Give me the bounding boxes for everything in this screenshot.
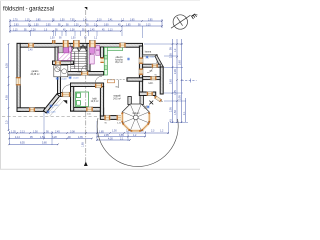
bathroom fixture 2 xyxy=(69,47,72,52)
svg-text:4,14: 4,14 xyxy=(15,136,20,139)
svg-text:-0,02: -0,02 xyxy=(54,105,60,107)
door extension bottom xyxy=(147,92,153,96)
svg-text:±0,00: ±0,00 xyxy=(61,78,67,80)
svg-text:1,85: 1,85 xyxy=(82,142,85,147)
snowflake hall 1 xyxy=(56,77,59,80)
wall below right extension (bottom band) xyxy=(139,92,155,96)
door hall wall xyxy=(95,83,102,88)
right extension chamfer top xyxy=(155,55,163,69)
right side dashed reference line xyxy=(182,80,197,82)
bottom scan edge xyxy=(0,169,200,170)
north symbol circle xyxy=(171,15,191,29)
snowflake porch 1 xyxy=(49,104,52,107)
right dim end ticks xyxy=(170,122,188,124)
svg-text:2,28: 2,28 xyxy=(174,69,177,74)
svg-text:garázs: garázs xyxy=(32,70,40,73)
opening width leader xyxy=(118,80,120,88)
octagon window SW xyxy=(122,123,130,131)
washer circle right xyxy=(62,69,67,74)
svg-text:1,50: 1,50 xyxy=(40,136,45,139)
top dim right end extension xyxy=(161,19,163,28)
north symbol long diagonal xyxy=(171,15,191,28)
svg-text:2,93: 2,93 xyxy=(14,25,19,27)
room labels xyxy=(30,51,153,116)
top dim line row 1 xyxy=(10,20,162,22)
interior wall right of stairs xyxy=(87,44,90,72)
terrace arc xyxy=(97,118,178,166)
svg-text:télikert: télikert xyxy=(133,112,140,115)
WINDOWS (orange) xyxy=(16,40,162,120)
svg-text:3,65: 3,65 xyxy=(130,20,135,22)
svg-text:2,28: 2,28 xyxy=(31,30,36,32)
door wall B xyxy=(55,61,61,65)
octagon window S xyxy=(131,130,142,132)
right extension divider 2 xyxy=(143,77,161,80)
section line (dash-dot) xyxy=(85,10,87,162)
interior wall left of bathroom (vertical) xyxy=(55,47,58,65)
bottom dim line row 2 right xyxy=(97,136,145,138)
bathroom shower fixture gray xyxy=(59,46,63,53)
door right wall upper xyxy=(139,58,143,64)
snowflake dining xyxy=(127,58,130,61)
small blue level labels xyxy=(51,57,156,114)
right extension right wall xyxy=(160,67,163,94)
section marker top xyxy=(84,7,87,10)
svg-text:2,95: 2,95 xyxy=(148,20,153,22)
svg-text:1,13: 1,13 xyxy=(108,30,113,32)
door pantry right wall xyxy=(100,58,103,64)
top scan edge xyxy=(0,0,200,2)
opening dashed line in wall xyxy=(104,79,127,81)
svg-text:4,30: 4,30 xyxy=(108,137,113,140)
svg-text:7,05: 7,05 xyxy=(70,20,75,22)
svg-text:12,5 m²: 12,5 m² xyxy=(91,100,99,103)
svg-text:nappali: nappali xyxy=(113,96,121,98)
svg-text:±0,00: ±0,00 xyxy=(73,78,79,80)
right vertical dim line 2 xyxy=(176,39,178,123)
svg-text:24,5 m²: 24,5 m² xyxy=(113,97,121,100)
wall segment right of living room opening xyxy=(127,78,143,81)
top dim line row 2 xyxy=(10,25,162,27)
bottom dim line row 3 left xyxy=(9,143,58,145)
laundry unit box xyxy=(54,65,68,77)
wall C below stairs xyxy=(66,72,104,76)
dim tick marks bottom rows xyxy=(8,43,183,145)
svg-text:2,10: 2,10 xyxy=(97,20,102,22)
bottom extension ticks xyxy=(9,131,11,145)
svg-text:1,50: 1,50 xyxy=(34,25,39,27)
svg-text:2,35: 2,35 xyxy=(170,53,173,58)
window bedroom bottom xyxy=(86,107,93,112)
top window extension ticks xyxy=(10,26,189,145)
left scan edge xyxy=(0,0,1,170)
octagon spokes xyxy=(122,104,149,131)
faint x marker 2 xyxy=(144,105,147,108)
svg-text:5,80: 5,80 xyxy=(42,142,47,145)
svg-text:3,15: 3,15 xyxy=(146,25,151,27)
left exterior wall xyxy=(17,43,20,111)
porch step line 1 xyxy=(47,99,61,115)
pantry right wall piece xyxy=(101,47,104,58)
door wall C xyxy=(81,71,88,75)
green kitchen counter left xyxy=(104,47,107,75)
svg-text:-0,02: -0,02 xyxy=(150,57,156,59)
dim numbers top row1 xyxy=(13,20,153,52)
washer circle left xyxy=(55,67,60,72)
svg-text:2,41: 2,41 xyxy=(108,20,113,22)
svg-text:3,28: 3,28 xyxy=(52,136,57,139)
octagon outline xyxy=(122,104,149,131)
door garage bottom xyxy=(29,107,35,112)
snowflake symbols (blue) xyxy=(46,56,149,114)
top dim left end extension xyxy=(9,19,11,33)
svg-text:2,60: 2,60 xyxy=(170,79,173,84)
snowflake kamra xyxy=(146,56,149,59)
window top wall dining xyxy=(119,43,125,48)
svg-text:1,15: 1,15 xyxy=(13,30,18,32)
svg-text:1,38: 1,38 xyxy=(70,30,75,32)
svg-text:2,40: 2,40 xyxy=(28,50,33,52)
porch step line 2 xyxy=(50,101,64,117)
right extension divider 1 xyxy=(143,64,161,67)
X marker near terrace steps xyxy=(149,101,153,105)
bedroom bottom wall xyxy=(71,107,104,111)
garage right wall lower xyxy=(58,65,61,94)
svg-text:1,65: 1,65 xyxy=(126,25,131,27)
window top wall bathroom xyxy=(63,40,69,47)
left vertical dim line xyxy=(8,44,10,131)
svg-text:2,95: 2,95 xyxy=(170,107,173,112)
WC fixtures column (pink) right of stairs xyxy=(90,46,95,53)
stair arrow xyxy=(74,52,76,69)
window living bottom left xyxy=(104,115,110,120)
octagon window E xyxy=(148,112,150,123)
bathroom pink hatch xyxy=(58,48,71,61)
stairs treads xyxy=(71,44,87,72)
svg-text:45,2 m²: 45,2 m² xyxy=(115,61,123,64)
top dim line row 3 xyxy=(10,30,121,32)
svg-text:1,50: 1,50 xyxy=(60,20,65,22)
octagon window SE xyxy=(141,123,149,131)
octagon north-west stub wall xyxy=(128,97,131,105)
svg-text:1,35: 1,35 xyxy=(11,130,16,133)
top exterior wall xyxy=(17,43,143,47)
svg-text:3,08: 3,08 xyxy=(70,130,75,133)
svg-text:1,15: 1,15 xyxy=(25,20,30,22)
octagon center circle xyxy=(133,115,138,120)
svg-text:4,55: 4,55 xyxy=(5,95,8,100)
svg-text:20,35 m²: 20,35 m² xyxy=(30,73,39,76)
window top wall small xyxy=(52,40,55,43)
WALLS xyxy=(17,43,163,119)
black door triangle at entrance xyxy=(63,100,67,104)
svg-text:1,50: 1,50 xyxy=(50,38,55,40)
door extension divider1 xyxy=(152,64,158,68)
living room bottom wall xyxy=(100,116,124,120)
rotated dim numbers left xyxy=(5,47,186,147)
svg-text:3,00: 3,00 xyxy=(104,25,109,27)
door extension divider2 xyxy=(150,76,156,80)
bathroom fixture pink xyxy=(64,46,69,53)
hall wall horizontal xyxy=(71,83,104,87)
window top wall bathroom2 xyxy=(89,40,95,47)
window top wall garage xyxy=(28,43,34,48)
green sink box 1 xyxy=(104,55,107,59)
right extension top thin wall xyxy=(143,55,158,56)
bedroom left wall xyxy=(71,87,74,112)
diagonal entrance wall xyxy=(43,94,59,113)
window bottom chamfer xyxy=(154,95,162,102)
right vertical dim line 1 xyxy=(172,39,174,123)
bottom dim line row 3 right xyxy=(97,139,130,141)
svg-text:előtér: előtér xyxy=(77,71,83,74)
radiator at opening xyxy=(108,80,115,83)
snowflake porch 2 xyxy=(46,110,49,113)
octagon north-east stub wall xyxy=(140,96,143,105)
window top wall stairs xyxy=(73,40,80,47)
left vertical dim ticks xyxy=(8,43,10,45)
pantry fixtures pink right of wall xyxy=(96,46,100,56)
right vertical dim line 3 xyxy=(181,39,183,123)
window left wall garage xyxy=(16,77,21,85)
green sink box 2 xyxy=(104,66,107,70)
step wall between bedroom and living bottom xyxy=(100,108,103,119)
svg-text:1,95: 1,95 xyxy=(174,90,177,95)
svg-text:1,20: 1,20 xyxy=(74,25,79,27)
svg-text:2,45: 2,45 xyxy=(90,30,95,32)
svg-text:kamra: kamra xyxy=(145,51,152,54)
interior wall B below bathroom xyxy=(53,61,74,65)
OCTAGON winter garden xyxy=(121,104,150,132)
svg-text:3,60: 3,60 xyxy=(179,60,182,65)
bottom chamfer thin wall xyxy=(154,96,162,102)
section marker bottom xyxy=(84,162,88,167)
svg-text:1,50: 1,50 xyxy=(112,129,117,132)
dim numbers bottom rows xyxy=(11,129,164,144)
window living bottom right xyxy=(117,115,124,120)
living room right wall xyxy=(139,46,142,96)
svg-text:földszint - garázzsal: földszint - garázzsal xyxy=(3,7,54,13)
garage bottom wall xyxy=(17,108,45,112)
svg-text:4,35: 4,35 xyxy=(78,136,83,139)
green bed xyxy=(76,92,89,107)
svg-text:-0,45: -0,45 xyxy=(51,111,57,113)
door arc wall B xyxy=(56,65,62,71)
stairs center stringer xyxy=(78,44,80,71)
snowflake hall 2 xyxy=(69,76,72,79)
door arc kamra xyxy=(147,67,153,73)
svg-text:6,35: 6,35 xyxy=(5,63,8,68)
right vertical dim line 4 short xyxy=(185,98,187,122)
svg-text:3,85: 3,85 xyxy=(36,20,41,22)
entrance door porch wall xyxy=(62,92,70,97)
green kitchen counter top (living) xyxy=(104,47,123,50)
laundry unit divider xyxy=(60,65,62,77)
door arc entrance (diagonal) xyxy=(62,85,70,93)
dim tick marks top rows (oblique) xyxy=(9,20,163,32)
svg-text:2,45: 2,45 xyxy=(55,130,60,133)
svg-text:2,05: 2,05 xyxy=(46,25,51,27)
bottom dim line row 2 left xyxy=(9,138,92,140)
porch wall with entrance door xyxy=(61,93,72,97)
north symbol short diagonal xyxy=(177,17,183,26)
svg-text:közl.: közl. xyxy=(149,83,154,85)
right vertical dim ticks xyxy=(172,43,174,45)
svg-text:1,50: 1,50 xyxy=(33,130,38,133)
stair break zigzag xyxy=(72,45,87,52)
svg-text:2,70: 2,70 xyxy=(13,20,18,22)
svg-text:1,50: 1,50 xyxy=(71,38,76,40)
door arc wall C xyxy=(81,65,88,72)
shower fixture pink xyxy=(90,55,95,64)
living room left wall xyxy=(100,87,103,117)
door right wall lower xyxy=(139,69,143,75)
dashed site line bottom-left xyxy=(2,116,99,118)
stairs left edge xyxy=(70,44,72,72)
svg-text:8,55: 8,55 xyxy=(20,142,25,145)
svg-text:1,50: 1,50 xyxy=(174,110,177,115)
svg-text:3,95: 3,95 xyxy=(179,95,182,100)
door arc hall wall xyxy=(95,76,102,83)
bottom dim line row 1 xyxy=(9,132,169,134)
snowflake terrace xyxy=(147,105,150,108)
svg-text:2,13: 2,13 xyxy=(20,130,25,133)
octagon window W xyxy=(121,112,123,123)
